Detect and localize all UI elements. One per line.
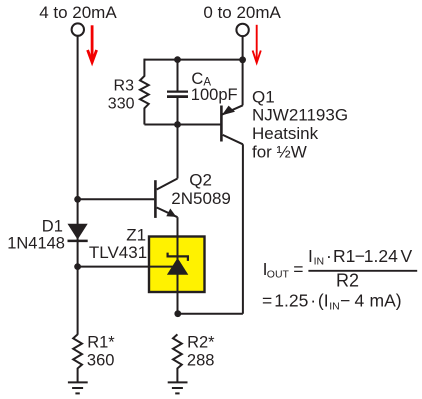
wire: Q2 emitter down through Z1 (177, 217, 179, 314)
Q1 emitter arrowhead (PNP, points to base bar) (222, 106, 235, 116)
wire: bottom link to R2 node (178, 313, 243, 315)
transistor Q2 (NPN 2N5089) (155, 179, 177, 218)
svg-text:4 to 20mA: 4 to 20mA (39, 3, 117, 22)
diode D1 (1N4148) (68, 224, 88, 240)
terminal OUT (right, 0-20mA) (236, 24, 248, 36)
svg-text:V: V (401, 246, 413, 266)
svg-text:1.24: 1.24 (364, 246, 398, 266)
svg-text:IN: IN (314, 256, 325, 268)
svg-text:D1: D1 (42, 218, 63, 236)
svg-text:1N4148: 1N4148 (7, 234, 65, 252)
svg-text:R2: R2 (336, 271, 359, 291)
svg-text:288: 288 (187, 351, 215, 369)
wire: Z1 reference line (78, 266, 178, 268)
svg-text:330: 330 (108, 96, 135, 113)
shunt regulator Z1 (TLV431) highlight box (149, 237, 205, 293)
svg-text:OUT: OUT (267, 269, 290, 281)
svg-text:for ½W: for ½W (252, 142, 307, 161)
Z1 cathode bar with ticks (168, 253, 188, 261)
svg-text:2N5089: 2N5089 (171, 189, 231, 208)
current arrow (red, left) (88, 25, 97, 62)
Z1 triangle (anode) (167, 258, 188, 275)
capacitor CA (167, 60, 188, 125)
node: top rail / CA junction (174, 56, 181, 63)
wire: Q2 collector up to bottom rail (177, 125, 179, 179)
svg-text:NJW21193G: NJW21193G (252, 106, 348, 125)
wire: Q2 base from D1 node (78, 198, 155, 200)
svg-text:Q1: Q1 (252, 87, 275, 106)
ground (under R1) (68, 382, 88, 393)
svg-text:·: · (310, 290, 316, 310)
svg-text:I: I (308, 246, 313, 266)
transistor Q1 (PNP NJW21193G) (221, 105, 243, 144)
svg-text:Q2: Q2 (189, 171, 212, 190)
svg-text:=: = (262, 290, 272, 310)
svg-text:R1: R1 (333, 246, 355, 266)
wire: left rail vertical (terminal to D1/R1 branch) (77, 36, 79, 267)
svg-text:TLV431: TLV431 (89, 243, 147, 262)
ground (under R2) (168, 382, 188, 393)
svg-text:mA): mA) (370, 290, 402, 310)
node: top rail junction at terminal (239, 56, 246, 63)
svg-text:Heatsink: Heatsink (252, 124, 319, 143)
svg-text:=: = (293, 259, 303, 279)
node: bottom rail / Q2 collector junction (174, 121, 181, 128)
resistor R2 (173, 334, 182, 382)
svg-text:R3: R3 (114, 78, 135, 95)
node: R2 / Z1 anode / Q1 collector junction (174, 310, 181, 317)
wire: top rail (144, 59, 242, 61)
wire: Q1 collector down right side (242, 144, 244, 313)
formula: IOUT = (IIN*R1 - 1.24V)/R2 (262, 246, 417, 313)
terminal IN (left, 4-20mA) (72, 23, 84, 35)
Z1 ref line inside box (149, 266, 178, 268)
wire: bottom rail (Q1 base) (144, 124, 221, 126)
svg-text:R2*: R2* (187, 334, 215, 352)
node: D1 top / Q2 base junction (74, 196, 81, 203)
wire: right terminal down to Q1 emitter (242, 36, 244, 105)
svg-text:IN: IN (329, 300, 340, 312)
svg-text:1.25: 1.25 (274, 290, 308, 310)
svg-text:(I: (I (318, 290, 329, 310)
svg-text:4: 4 (355, 290, 365, 310)
wire: left rail down to R1 (77, 267, 79, 335)
resistor R1 (73, 334, 82, 382)
svg-text:100pF: 100pF (191, 86, 238, 104)
Q2 emitter arrowhead (NPN) (166, 209, 176, 217)
svg-text:Z1: Z1 (126, 225, 146, 244)
svg-text:0 to 20mA: 0 to 20mA (203, 3, 281, 22)
wire: through Z1 box (177, 237, 179, 314)
svg-text:360: 360 (87, 351, 115, 369)
node: D1 anode / Z1 ref junction (74, 263, 81, 270)
svg-text:−: − (340, 290, 350, 310)
svg-text:·: · (326, 246, 332, 266)
resistor R3 (140, 59, 149, 125)
current arrow (red, right) (253, 25, 261, 63)
svg-text:R1*: R1* (87, 334, 115, 352)
